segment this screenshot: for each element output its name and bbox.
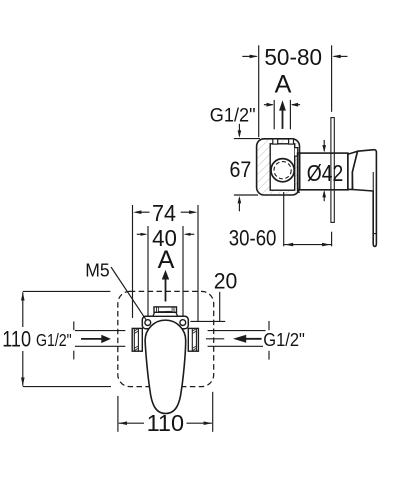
svg-text:30-60: 30-60: [229, 225, 277, 250]
svg-text:67: 67: [230, 157, 252, 182]
svg-text:50-80: 50-80: [264, 44, 322, 70]
svg-text:110: 110: [147, 410, 184, 436]
svg-text:Ø42: Ø42: [307, 160, 344, 186]
svg-text:110: 110: [2, 327, 31, 352]
svg-text:A: A: [275, 70, 292, 98]
svg-text:A: A: [158, 246, 175, 274]
svg-text:20: 20: [214, 268, 238, 293]
svg-text:74: 74: [152, 200, 176, 226]
svg-text:M5: M5: [85, 261, 109, 281]
svg-text:G1/2": G1/2": [263, 330, 305, 350]
svg-text:G1/2": G1/2": [36, 330, 72, 350]
svg-text:G1/2": G1/2": [210, 105, 256, 126]
